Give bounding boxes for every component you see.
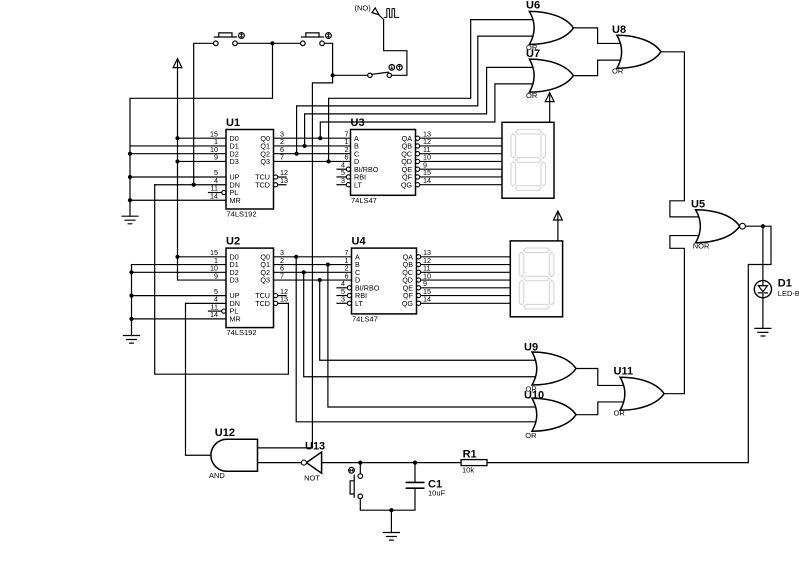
pushbutton S2 (301, 33, 332, 46)
svg-text:LT: LT (355, 299, 363, 308)
power arrow VCC display DS1 (545, 93, 554, 102)
or-gate U7 (526, 48, 573, 100)
svg-text:QG: QG (401, 180, 413, 189)
svg-text:74LS47: 74LS47 (351, 196, 377, 205)
junction C1 RC node (413, 461, 417, 465)
7-segment display DS2 (510, 241, 562, 317)
wire U1 Q1 to U3 B (274, 145, 351, 147)
wire PB1 left terminal to U1 DN net (194, 43, 214, 184)
wire U4 QD to display DS2 (420, 279, 510, 281)
wire U4 QE to display DS2 (420, 287, 510, 289)
wire U2 Q0 to U4 A (274, 256, 352, 258)
svg-text:QG: QG (402, 299, 414, 308)
wire U1 D1 to ground rail (130, 145, 226, 147)
not-gate U13 (301, 440, 325, 482)
or-gate U11 (614, 366, 665, 418)
wire PB3 top to RC node (359, 463, 361, 474)
svg-text:U8: U8 (612, 24, 626, 36)
svg-text:(NO): (NO) (355, 4, 372, 13)
junction U1 Q3 branch (327, 159, 331, 163)
junction GND U2 D2 (129, 270, 133, 274)
svg-text:U3: U3 (351, 117, 365, 129)
wire VCC rail vertical to U2 D3 (178, 68, 227, 280)
ground symbol bottom center (383, 533, 399, 541)
junction GND U1 UP (128, 175, 132, 179)
wire U3 QE to display DS1 (420, 168, 502, 170)
wire U5 output node (743, 226, 771, 462)
ground symbol left upper (122, 216, 138, 224)
svg-text:74LS192: 74LS192 (227, 210, 257, 219)
svg-text:OR: OR (612, 67, 624, 76)
wire U4 QA to display DS2 (420, 256, 510, 258)
wire PB3 bottom to ground rail (360, 488, 415, 510)
wire U2 Q1 branch to U10 input 1 (328, 265, 537, 407)
wire clock net junction B down to U12 input 1 (258, 75, 333, 448)
or-gate U9 (524, 342, 576, 394)
junction GND U1 MR (128, 198, 132, 202)
junction GND U1 D2 (128, 152, 132, 156)
ground symbol LED D1 (755, 328, 771, 336)
svg-text:Q3: Q3 (260, 276, 270, 285)
wire U4 QF to display DS2 (420, 295, 510, 297)
wire U1 PL stub pin 11 (209, 192, 222, 194)
power arrow VCC display DS2 (554, 211, 563, 220)
svg-text:14: 14 (423, 295, 431, 304)
svg-text:7: 7 (280, 271, 284, 280)
wire U2 D1 to ground (132, 264, 227, 266)
svg-text:R1: R1 (463, 448, 477, 460)
wire U4 QB to display DS2 (420, 264, 510, 266)
wire U2 PL stub pin 11 (209, 310, 222, 312)
wire U1 DN cascade from U2 TCD (155, 185, 289, 374)
svg-text:NOT: NOT (304, 473, 320, 482)
junction VCC U1 D3 (175, 159, 179, 163)
svg-text:10k: 10k (462, 466, 474, 475)
svg-text:U7: U7 (526, 48, 540, 60)
svg-text:9: 9 (214, 271, 218, 280)
svg-text:13: 13 (280, 176, 288, 185)
junction ground tap bottom (389, 508, 393, 512)
wire U3 QA to display DS1 (420, 137, 502, 139)
wire U1 TCD stub pin 13 (278, 184, 286, 186)
wire U1 DN net (155, 184, 226, 186)
decoder U4 74LS47 (341, 236, 431, 324)
pushbutton S3 reset (349, 467, 363, 498)
wire clock source to SPDT throw (384, 20, 407, 76)
wire U13 input RC node (322, 462, 462, 464)
wire U3 QB to display DS1 (420, 145, 502, 147)
svg-text:AND: AND (209, 471, 225, 480)
svg-text:3: 3 (341, 295, 345, 304)
and-gate U12 (209, 427, 258, 480)
svg-text:U5: U5 (691, 199, 705, 211)
junction GND U2 MR (129, 317, 133, 321)
pushbutton S1 (214, 33, 245, 46)
svg-text:MR: MR (230, 196, 241, 205)
wire U2 Q2 branch to U9 input 2 (304, 272, 537, 376)
wire U5 output to LED D1 (762, 226, 764, 280)
junction clock net (331, 73, 335, 77)
wire junction B to SPDT pole (333, 74, 368, 76)
wire U2 TCU stub pin 12 (278, 295, 286, 297)
wire LED D1 cathode to ground (762, 281, 764, 329)
wire U2 D2 to ground (132, 271, 227, 273)
junction U5 output D1 (761, 224, 765, 228)
junction U1 Q2 branch (295, 152, 299, 156)
svg-text:14: 14 (423, 176, 431, 185)
wire junction A to PB2 left terminal (273, 42, 301, 44)
svg-text:U1: U1 (226, 117, 240, 129)
junction U2 Q0 branch (294, 255, 298, 259)
svg-text:U10: U10 (524, 389, 544, 401)
wire U1 TCU stub pin 12 (278, 176, 286, 178)
svg-text:U9: U9 (524, 342, 538, 354)
wire U2 MR to ground (132, 318, 227, 320)
svg-text:10uF: 10uF (428, 489, 446, 498)
wire U2 ground rail vertical (131, 265, 133, 336)
wire U1 UP to ground rail (130, 176, 226, 178)
wire U3 QC to display DS1 (420, 153, 502, 155)
wire VCC to display DS2 common (557, 220, 559, 241)
svg-text:74LS47: 74LS47 (352, 314, 378, 323)
wire U9 output to U11 input 1 (576, 369, 625, 386)
counter U1 74LS192 (210, 117, 288, 219)
svg-text:D3: D3 (230, 276, 239, 285)
junction U2 Q2 branch (302, 270, 306, 274)
wire U4 QC to display DS2 (420, 271, 510, 273)
svg-text:D3: D3 (230, 157, 239, 166)
wire U8 output to U5 input 1 (661, 52, 701, 217)
svg-text:9: 9 (214, 153, 218, 162)
svg-text:7: 7 (280, 153, 284, 162)
resistor R1 (461, 448, 487, 474)
svg-text:MR: MR (230, 314, 241, 323)
wire U2 Q3 branch to U9 input 1 (320, 280, 537, 360)
svg-text:U2: U2 (226, 236, 240, 248)
wire U2 Q0 branch to U10 input 2 (296, 257, 537, 422)
junction PB3 RC node (358, 461, 362, 465)
wire U2 Q2 to U4 C (274, 271, 352, 273)
wire U1 Q3 to U3 D (274, 160, 351, 162)
svg-text:U4: U4 (352, 236, 367, 248)
svg-text:NOR: NOR (693, 241, 710, 250)
wire PB2 right terminal down to junction B (325, 43, 333, 75)
wire U1 D0 from VCC rail (178, 137, 227, 139)
junction U1 Q0 branch (318, 136, 322, 140)
junction VCC U2 D0 (175, 255, 179, 259)
wire U1 D2 to ground rail (130, 153, 226, 155)
counter U2 74LS192 (210, 236, 288, 338)
svg-text:6: 6 (345, 271, 349, 280)
svg-text:74LS192: 74LS192 (227, 328, 257, 337)
wire U1 Q2 branch to U6 input 2 (297, 36, 535, 154)
wire U3 BI/RBO stub (337, 168, 346, 170)
junction GND U2 UP (129, 294, 133, 298)
junction U1 Q1 branch (303, 144, 307, 148)
svg-text:U6: U6 (526, 0, 540, 12)
wire VCC to display DS1 common (549, 102, 551, 123)
junction VCC U1 D0 (175, 136, 179, 140)
wire U4 BI/RBO stub (337, 287, 346, 289)
wire U3 QF to display DS1 (420, 176, 502, 178)
wire U2 UP to ground (132, 295, 227, 297)
wire U1 Q0 to U3 A (274, 137, 351, 139)
svg-text:LED-BI: LED-BI (778, 289, 799, 298)
wire R1 to U5 output net (487, 462, 748, 464)
wire ground stem bottom (390, 510, 392, 532)
svg-text:D1: D1 (778, 278, 792, 290)
wire U11 output to U5 input 2 (664, 236, 700, 394)
wire U6 output to U8 input 1 (574, 28, 622, 44)
wire U2 DN from U12 output (186, 302, 227, 304)
svg-text:OR: OR (525, 431, 537, 440)
svg-text:U12: U12 (215, 427, 235, 439)
wire PB1 right terminal to junction A (237, 42, 272, 44)
or-gate U8 (612, 24, 661, 76)
wire U12 input 2 from U13 output (258, 462, 302, 464)
wire U3 QG to display DS1 (420, 184, 502, 186)
svg-text:14: 14 (210, 310, 218, 319)
wire U10 output to U11 input 2 (576, 402, 625, 415)
wire U1 Q2 to U3 C (274, 153, 351, 155)
svg-text:6: 6 (345, 153, 349, 162)
or-gate U10 (524, 389, 576, 440)
svg-text:LT: LT (354, 180, 362, 189)
wire U4 QG to display DS2 (420, 302, 510, 304)
wire U2 Q1 to U4 B (274, 264, 352, 266)
wire U3 QD to display DS1 (420, 160, 502, 162)
ground symbol left lower (124, 336, 140, 344)
wire junction A down to ground rail (130, 43, 273, 216)
decoder U3 74LS47 (341, 117, 431, 205)
wire U1 MR to ground rail (130, 199, 226, 201)
svg-text:U13: U13 (305, 440, 325, 452)
or-gate U6 (526, 0, 573, 52)
wire U1 Q1 branch to U7 input 1 (305, 67, 535, 146)
capacitor C1 (406, 479, 445, 498)
7-segment display DS1 (502, 122, 554, 198)
svg-text:13: 13 (280, 295, 288, 304)
svg-text:U11: U11 (614, 366, 634, 378)
junction U2 Q1 branch (326, 262, 330, 266)
junction PB1 to U1 DN (192, 183, 196, 187)
svg-text:14: 14 (210, 191, 218, 200)
wire U7 output to U8 input 2 (574, 60, 622, 75)
wire U3 LT stub (337, 184, 346, 186)
LED D1 LED-BI (754, 278, 799, 298)
svg-text:TCD: TCD (255, 180, 270, 189)
wire U4 LT stub (337, 302, 346, 304)
wire U12 output to U2 DN (186, 303, 211, 455)
wire U2 D0 from VCC rail (178, 256, 227, 258)
junction U2 Q3 branch (318, 278, 322, 282)
wire C1 top to RC node (414, 463, 416, 483)
wire U1 Q0 branch to U7 input 2 (320, 84, 534, 138)
svg-text:Q3: Q3 (260, 157, 270, 166)
wire U4 RBI stub (337, 295, 346, 297)
switch S4 SPDT (368, 65, 403, 78)
junction PB1-PB2 (270, 41, 274, 45)
svg-text:TCD: TCD (255, 299, 270, 308)
svg-text:3: 3 (341, 176, 345, 185)
svg-text:OR: OR (526, 91, 538, 100)
power arrow VCC rail left (173, 59, 182, 68)
svg-text:OR: OR (614, 408, 626, 417)
wire U3 RBI stub (337, 176, 346, 178)
wire U1 D3 from VCC rail (178, 160, 227, 162)
clock source V1 (NO) (355, 4, 399, 20)
wire U1 Q3 branch to U6 input 1 (329, 20, 535, 162)
nor-gate U5 (691, 199, 745, 251)
wire U2 Q3 to U4 D (274, 279, 352, 281)
